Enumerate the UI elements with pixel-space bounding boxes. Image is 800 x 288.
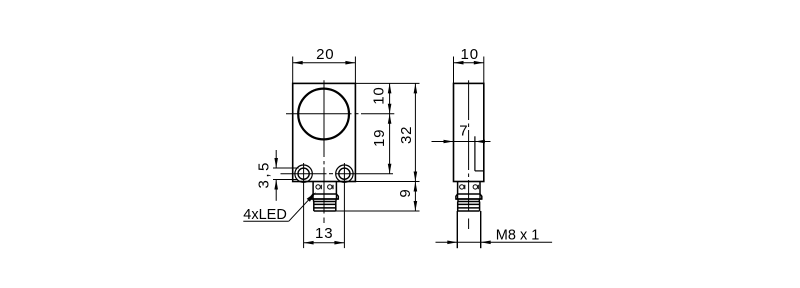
svg-text:20: 20 xyxy=(316,46,334,63)
svg-text:7: 7 xyxy=(459,123,467,140)
svg-text:9: 9 xyxy=(397,189,414,197)
svg-text:4xLED: 4xLED xyxy=(243,207,287,223)
svg-text:19: 19 xyxy=(371,129,388,147)
svg-text:M8 x 1: M8 x 1 xyxy=(496,228,540,244)
svg-text:10: 10 xyxy=(371,86,388,104)
svg-text:13: 13 xyxy=(315,225,333,242)
svg-text:32: 32 xyxy=(398,126,415,144)
svg-text:3,5: 3,5 xyxy=(256,160,273,188)
svg-text:10: 10 xyxy=(461,46,479,63)
